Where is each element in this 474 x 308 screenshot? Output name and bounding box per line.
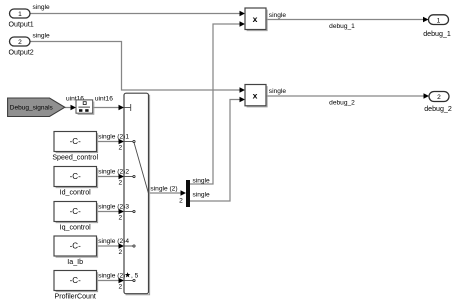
svg-text:x: x	[253, 14, 258, 24]
svg-text:single: single	[193, 192, 211, 199]
svg-text:Debug_signals: Debug_signals	[10, 105, 54, 112]
svg-text:single: single	[33, 4, 51, 11]
svg-text:Speed_control: Speed_control	[52, 154, 98, 162]
svg-text:debug_1: debug_1	[329, 23, 355, 30]
svg-text:1: 1	[18, 11, 22, 18]
svg-text:Iq_control: Iq_control	[60, 224, 92, 232]
svg-text:single: single	[193, 177, 211, 184]
svg-text:-C-: -C-	[70, 242, 81, 251]
svg-text:debug_1: debug_1	[423, 30, 451, 38]
svg-text:single (2): single (2)	[98, 133, 125, 140]
svg-text:single: single	[33, 32, 51, 39]
svg-text:uint16: uint16	[95, 96, 113, 103]
svg-text:2: 2	[179, 197, 183, 204]
svg-text:single (2): single (2)	[98, 203, 125, 210]
svg-text:-C-: -C-	[70, 207, 81, 216]
svg-text:ProfilerCount: ProfilerCount	[54, 293, 95, 301]
svg-text:debug_2: debug_2	[424, 105, 452, 113]
svg-text:single (2): single (2)	[98, 238, 125, 245]
svg-text:2: 2	[118, 145, 122, 152]
svg-text:Id_control: Id_control	[60, 189, 92, 197]
svg-text:-C-: -C-	[70, 276, 81, 285]
svg-text:single (2): single (2)	[98, 272, 125, 279]
svg-text:2: 2	[118, 249, 122, 256]
svg-text:single (2): single (2)	[98, 168, 125, 175]
svg-text:single: single	[269, 88, 287, 95]
svg-text:debug_2: debug_2	[329, 100, 355, 107]
svg-text:single: single	[269, 12, 287, 19]
svg-text:Ia_Ib: Ia_Ib	[67, 258, 83, 266]
svg-text:x: x	[253, 90, 258, 100]
svg-text:1: 1	[437, 17, 441, 24]
svg-text:-C-: -C-	[70, 172, 81, 181]
svg-text:2: 2	[118, 180, 122, 187]
svg-text:single (2): single (2)	[150, 185, 177, 192]
svg-text:2: 2	[118, 284, 122, 291]
svg-text:2: 2	[437, 94, 441, 101]
svg-text:-C-: -C-	[70, 137, 81, 146]
svg-text:Output2: Output2	[9, 48, 34, 56]
svg-text:2: 2	[118, 215, 122, 222]
svg-text:2: 2	[18, 39, 22, 46]
svg-text:Output1: Output1	[9, 20, 34, 28]
